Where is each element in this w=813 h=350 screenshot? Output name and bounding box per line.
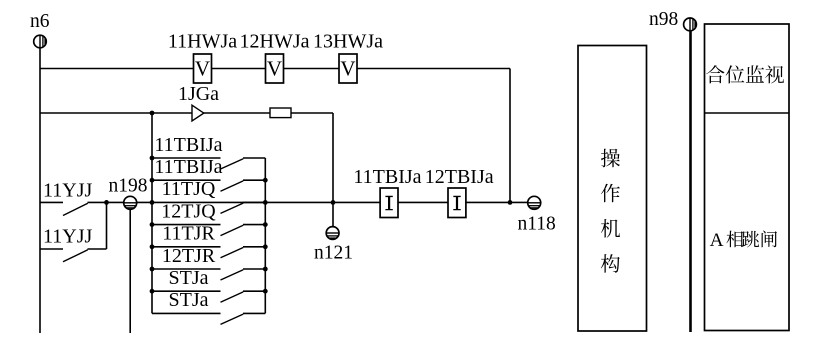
wire 11YJJ lead 2b xyxy=(88,248,107,250)
contact 11TBIJa right stub (row 1) xyxy=(243,157,265,159)
contact 12TJR blade (row 6) xyxy=(221,270,244,280)
contact STJa blade (row 7) xyxy=(221,292,244,302)
A-phase trip text 闸 xyxy=(762,231,777,248)
close-position-monitor text 监 xyxy=(746,65,764,82)
contact 11TJQ blade (row 3) xyxy=(221,203,244,213)
contact 11TJR blade (row 5) xyxy=(221,248,244,258)
svg-text:13HWJa: 13HWJa xyxy=(313,31,383,53)
junction dot right bus row 7 xyxy=(263,289,268,294)
operating mechanism box xyxy=(578,46,647,332)
operating mechanism text 作 xyxy=(601,184,620,203)
wire second rail xyxy=(40,112,333,114)
svg-text:11TBIJa: 11TBIJa xyxy=(154,134,222,156)
contact 12TJQ blade (row 4) xyxy=(221,225,244,235)
svg-text:n121: n121 xyxy=(314,243,353,264)
svg-text:11TBIJa: 11TBIJa xyxy=(154,156,222,178)
operating mechanism text 构 xyxy=(601,254,620,273)
svg-text:n98: n98 xyxy=(649,9,678,30)
wire riser from 11YJJ-2 xyxy=(106,202,108,249)
relay 13HWJa (V coil) xyxy=(339,54,357,83)
svg-text:11YJJ: 11YJJ xyxy=(43,225,92,247)
node n118 xyxy=(528,196,541,209)
contact 11TJQ right stub (row 3) xyxy=(243,201,265,203)
monitor/trip box xyxy=(705,24,790,331)
svg-text:12TJR: 12TJR xyxy=(162,245,216,267)
relay 11HWJa (V coil) xyxy=(194,54,212,83)
monitor/trip divider xyxy=(705,112,790,114)
contact 11TBIJa right stub (row 2) xyxy=(243,179,265,181)
svg-text:STJa: STJa xyxy=(169,289,209,311)
svg-text:12TJQ: 12TJQ xyxy=(161,200,216,222)
svg-text:V: V xyxy=(195,57,210,81)
junction dot at drop n121 xyxy=(331,200,336,205)
contact 12TJQ left lead (row 4) xyxy=(152,224,221,226)
svg-text:11HWJa: 11HWJa xyxy=(168,31,237,53)
relay 12TBIJa I letter xyxy=(453,196,460,211)
svg-text:11TBIJa: 11TBIJa xyxy=(353,166,421,188)
wire top rail drop xyxy=(509,69,511,203)
contact 11TBIJa left lead (row 2) xyxy=(152,179,221,181)
svg-text:12TBIJa: 12TBIJa xyxy=(425,166,494,188)
junction dot at riser xyxy=(104,200,109,205)
switch 11YJJ lead 2a xyxy=(40,248,63,250)
svg-text:A: A xyxy=(710,230,724,251)
contact STJa blade (row 8) xyxy=(221,314,244,324)
A-phase trip text 相 xyxy=(726,231,743,248)
contact 11TJR left lead (row 5) xyxy=(152,246,221,248)
node n198 xyxy=(124,196,137,209)
junction dot right bus row 4 xyxy=(263,222,268,227)
svg-text:V: V xyxy=(267,57,282,81)
svg-text:n118: n118 xyxy=(518,214,556,235)
node n6 terminal xyxy=(34,35,47,48)
svg-text:11YJJ: 11YJJ xyxy=(43,179,92,201)
svg-text:1JGa: 1JGa xyxy=(178,83,219,105)
wire top rail xyxy=(40,68,510,70)
junction dot left bus row 2 xyxy=(150,178,155,183)
svg-text:n198: n198 xyxy=(109,175,148,196)
junction dot left bus row 1 xyxy=(150,156,155,161)
relay 12HWJa (V coil) xyxy=(266,54,284,83)
junction dot at top-rail drop xyxy=(508,200,513,205)
contact STJa right stub (row 8) xyxy=(243,312,265,314)
contact 11TBIJa left lead (row 1) xyxy=(152,157,221,159)
switch 11YJJ blade 2 xyxy=(63,250,88,262)
junction dot left bus row 5 xyxy=(150,244,155,249)
relay 1JGa (triangle) xyxy=(192,105,204,121)
operating mechanism text 操 xyxy=(601,149,620,168)
wire main rail left lead xyxy=(40,201,63,203)
contact 11TBIJa blade (row 2) xyxy=(221,181,244,191)
wire n198 drop xyxy=(129,210,131,334)
contact STJa left lead (row 8) xyxy=(152,312,221,314)
contact 12TJR left lead (row 6) xyxy=(152,268,221,270)
svg-text:12HWJa: 12HWJa xyxy=(240,31,310,53)
operating mechanism text 机 xyxy=(601,219,620,238)
svg-text:11TJR: 11TJR xyxy=(162,223,215,245)
contact 12TJR right stub (row 6) xyxy=(243,268,265,270)
contact 11TBIJa blade (row 1) xyxy=(221,159,244,169)
svg-text:11TJQ: 11TJQ xyxy=(162,178,216,200)
A-phase trip text 跳 xyxy=(742,231,759,247)
close-position-monitor text 位 xyxy=(726,65,745,83)
relay 11TBIJa I letter xyxy=(385,196,392,211)
node n121 xyxy=(326,227,339,240)
svg-text:n6: n6 xyxy=(30,11,50,32)
wire right bus xyxy=(264,158,266,313)
wire n98 heavy drop xyxy=(689,31,692,332)
junction dot left bus row 7 xyxy=(150,289,155,294)
junction dot right bus row 3 xyxy=(263,200,268,205)
close-position-monitor text 视 xyxy=(765,65,784,83)
wire left bus xyxy=(151,113,153,313)
svg-text:STJa: STJa xyxy=(169,267,209,289)
contact 11TJR right stub (row 5) xyxy=(243,246,265,248)
junction dot left bus row 6 xyxy=(150,267,155,272)
svg-text:V: V xyxy=(340,57,355,81)
node n98 terminal xyxy=(684,18,697,31)
junction dot right bus row 2 xyxy=(263,178,268,183)
relay 11TBIJa (I coil) xyxy=(380,188,398,218)
wire drop to n121 xyxy=(332,113,334,227)
wire main rail xyxy=(88,201,528,203)
junction dot right bus row 5 xyxy=(263,244,268,249)
relay 12TBIJa (I coil) xyxy=(448,188,466,218)
contact STJa right stub (row 7) xyxy=(243,290,265,292)
junction dot left bus row 3 xyxy=(150,200,155,205)
contact STJa left lead (row 7) xyxy=(152,290,221,292)
resistor xyxy=(270,108,291,118)
junction dot left bus top xyxy=(150,111,155,116)
switch 11YJJ blade 1 xyxy=(63,203,88,215)
close-position-monitor text 合 xyxy=(706,65,724,83)
junction dot right bus row 6 xyxy=(263,267,268,272)
junction dot left bus row 4 xyxy=(150,222,155,227)
contact 12TJQ right stub (row 4) xyxy=(243,224,265,226)
wire n6 vertical xyxy=(39,48,41,334)
